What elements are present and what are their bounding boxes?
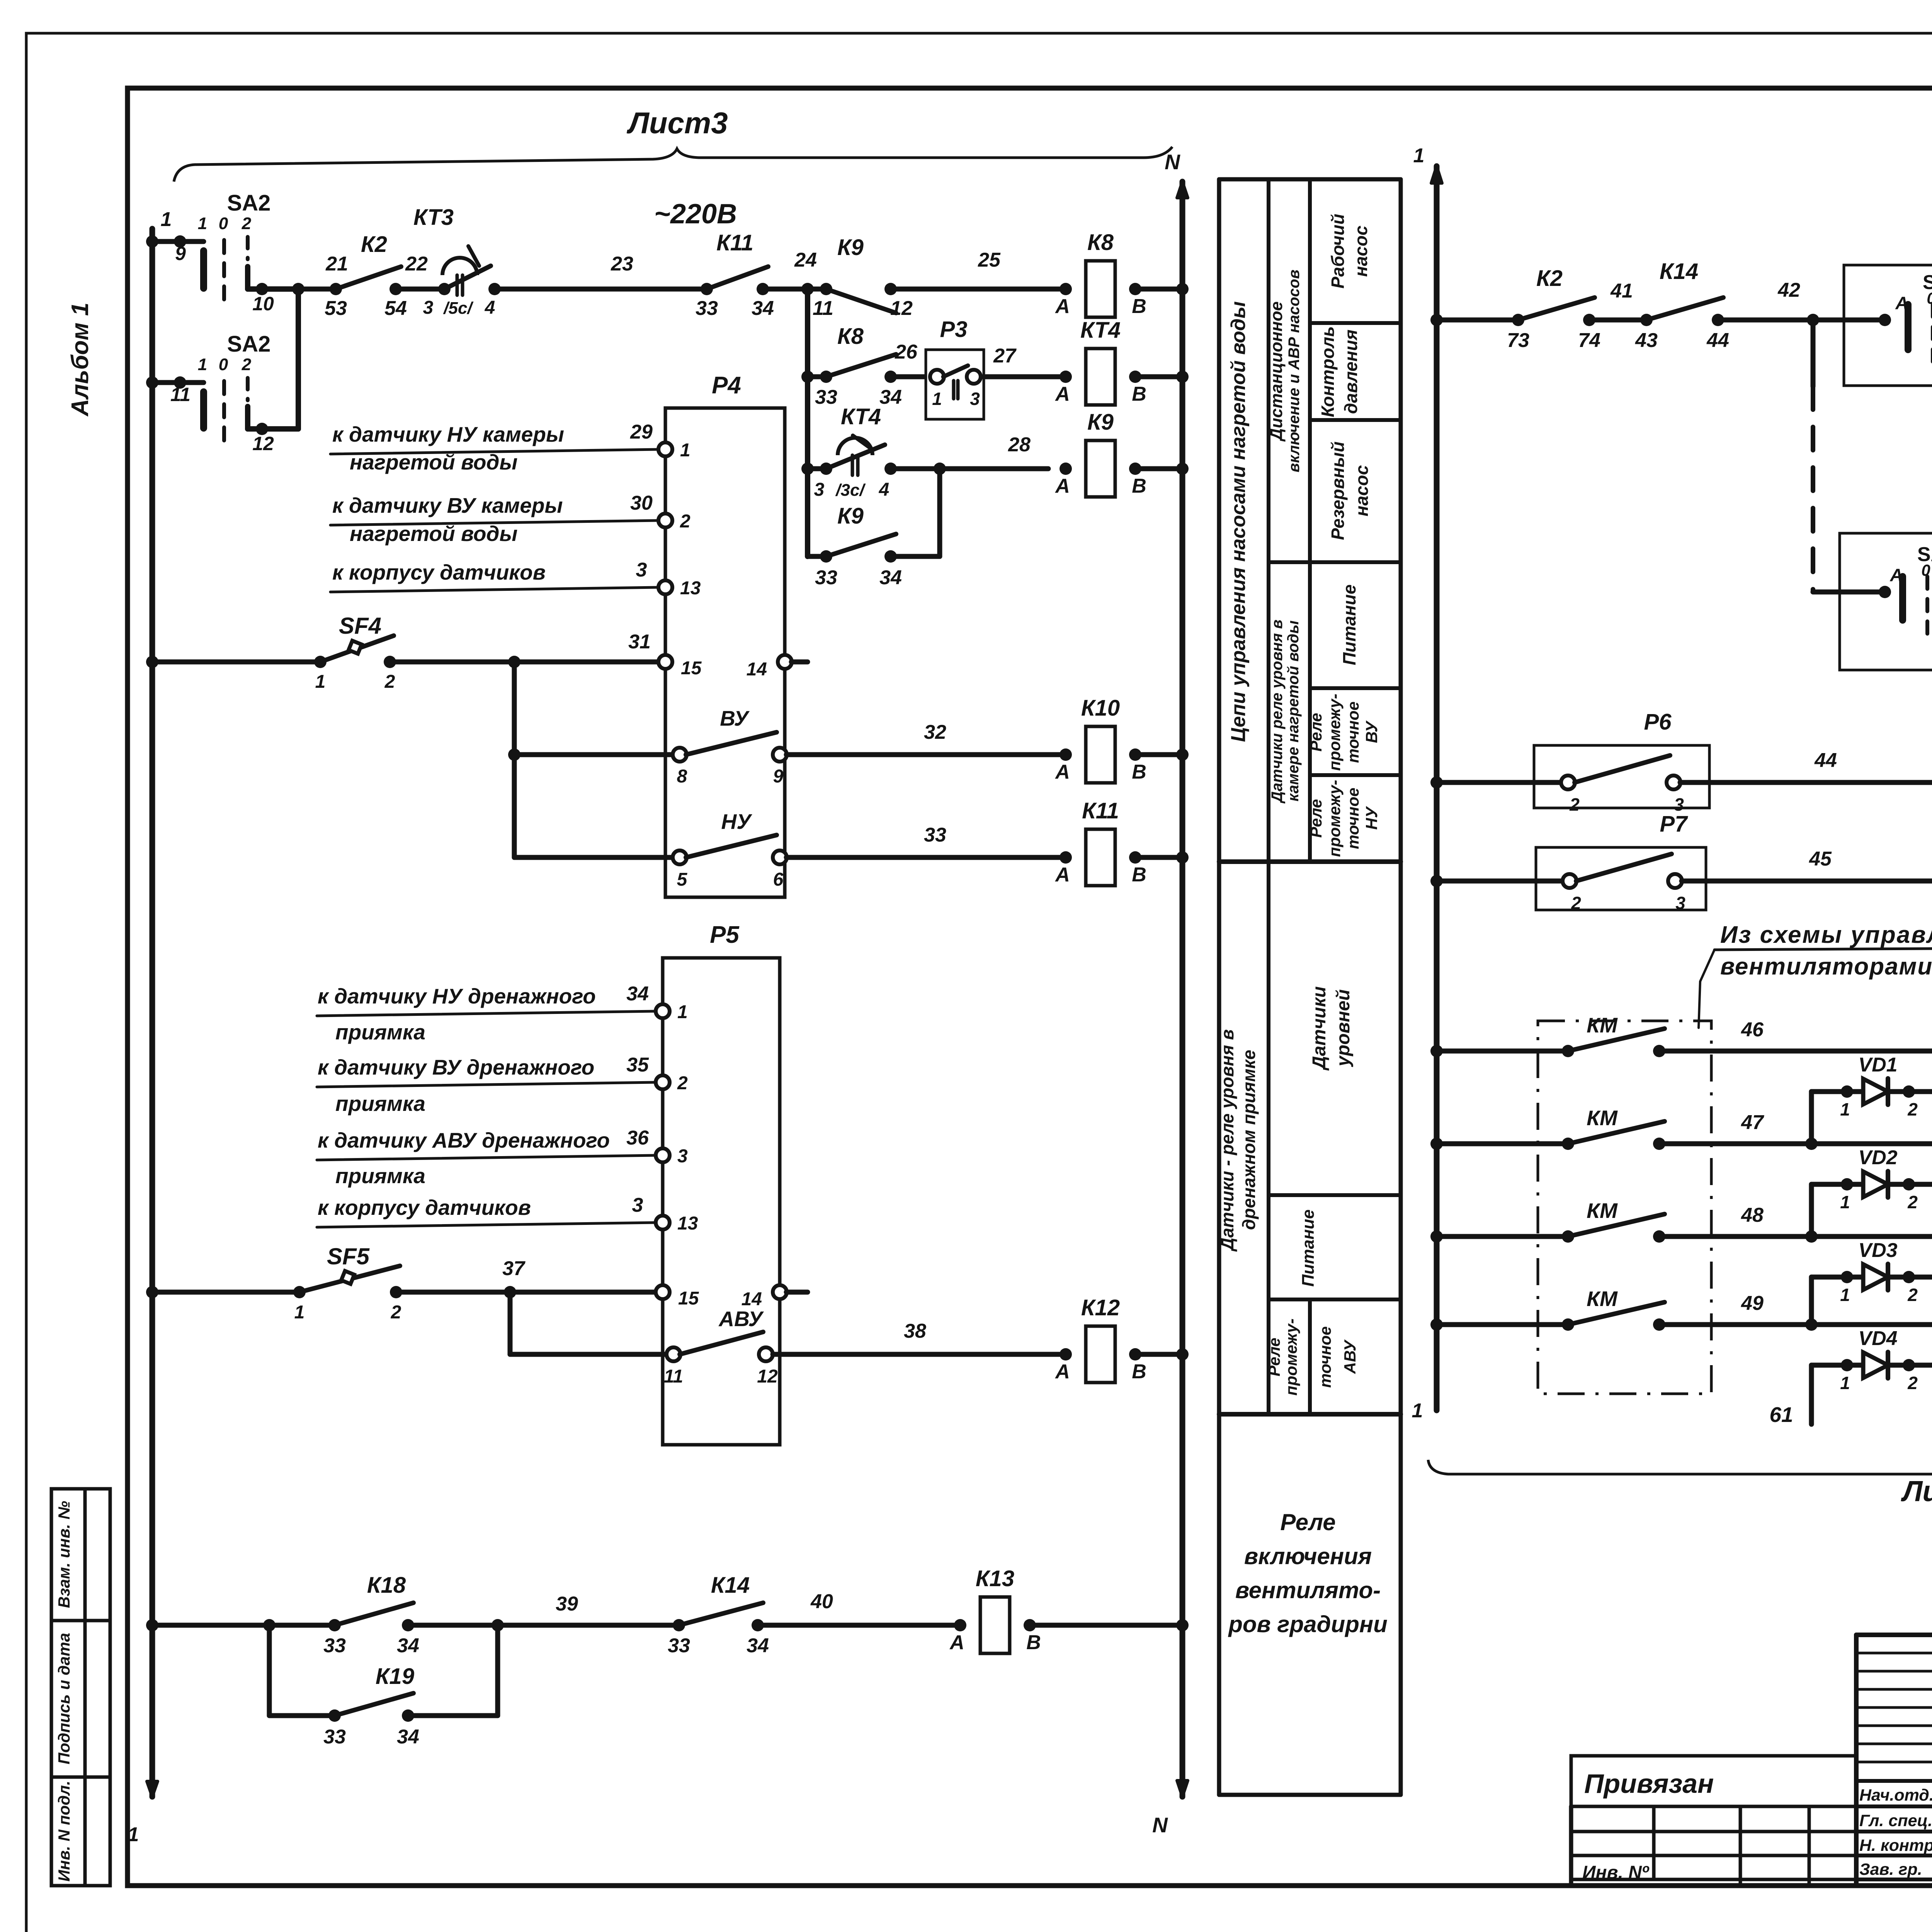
svg-text:точное: точное xyxy=(1344,787,1362,849)
svg-text:Реле: Реле xyxy=(1307,713,1325,752)
svg-text:15: 15 xyxy=(681,658,702,679)
svg-text:к датчику НУ дренажного: к датчику НУ дренажного xyxy=(318,984,596,1008)
svg-text:1: 1 xyxy=(1840,1285,1850,1305)
svg-text:22: 22 xyxy=(405,253,428,275)
svg-text:К14: К14 xyxy=(1660,259,1698,284)
svg-text:Взам. инв. №: Взам. инв. № xyxy=(55,1501,73,1608)
svg-text:2: 2 xyxy=(391,1302,401,1323)
svg-text:6: 6 xyxy=(773,869,784,890)
svg-text:Датчики: Датчики xyxy=(1309,986,1330,1071)
svg-text:15: 15 xyxy=(678,1288,699,1309)
svg-text:Контроль: Контроль xyxy=(1318,326,1338,417)
svg-text:1: 1 xyxy=(315,672,326,692)
svg-text:0: 0 xyxy=(1927,289,1932,307)
svg-text:40: 40 xyxy=(810,1590,833,1613)
svg-text:В: В xyxy=(1132,761,1146,783)
svg-text:21: 21 xyxy=(325,253,348,275)
svg-text:Р3: Р3 xyxy=(940,317,968,342)
svg-text:К9: К9 xyxy=(1087,410,1114,435)
svg-text:31: 31 xyxy=(628,631,651,653)
svg-text:3: 3 xyxy=(423,298,434,318)
svg-text:13: 13 xyxy=(680,578,701,599)
svg-text:Реле: Реле xyxy=(1307,799,1325,838)
svg-text:В: В xyxy=(1132,864,1146,886)
svg-text:2: 2 xyxy=(384,672,395,692)
svg-text:к корпусу датчиков: к корпусу датчиков xyxy=(332,560,546,584)
svg-text:12: 12 xyxy=(757,1366,778,1387)
svg-text:VD3: VD3 xyxy=(1858,1239,1897,1262)
svg-text:/3с/: /3с/ xyxy=(835,481,866,500)
svg-text:Альбом 1: Альбом 1 xyxy=(67,303,94,417)
svg-text:КМ: КМ xyxy=(1587,1287,1618,1311)
svg-text:Лист 5: Лист 5 xyxy=(1901,1475,1932,1507)
svg-text:вентилято-: вентилято- xyxy=(1235,1577,1381,1603)
svg-text:Датчики реле уровня в: Датчики реле уровня в xyxy=(1269,619,1286,803)
svg-text:SA2: SA2 xyxy=(227,332,271,357)
svg-text:К8: К8 xyxy=(837,324,864,349)
svg-text:Инв. N подл.: Инв. N подл. xyxy=(55,1781,73,1881)
svg-text:К9: К9 xyxy=(837,235,864,260)
svg-text:промежу-: промежу- xyxy=(1325,694,1344,771)
svg-text:1: 1 xyxy=(198,355,207,374)
svg-text:9: 9 xyxy=(773,766,784,787)
svg-text:К8: К8 xyxy=(1087,230,1114,255)
svg-text:33: 33 xyxy=(815,386,837,408)
svg-text:к датчику НУ камеры: к датчику НУ камеры xyxy=(332,422,564,446)
svg-text:41: 41 xyxy=(1610,280,1633,302)
svg-text:А: А xyxy=(1054,761,1070,783)
svg-text:3: 3 xyxy=(632,1194,643,1216)
svg-text:12: 12 xyxy=(890,297,913,320)
svg-text:14: 14 xyxy=(747,659,767,680)
svg-text:КТ4: КТ4 xyxy=(1080,318,1121,343)
svg-text:61: 61 xyxy=(1769,1403,1793,1427)
svg-text:2: 2 xyxy=(1907,1373,1918,1393)
svg-text:VD4: VD4 xyxy=(1858,1327,1897,1350)
svg-text:КМ: КМ xyxy=(1587,1013,1618,1037)
svg-text:37: 37 xyxy=(502,1257,526,1280)
svg-text:К2: К2 xyxy=(1536,266,1563,291)
svg-text:1: 1 xyxy=(198,214,207,233)
svg-text:В: В xyxy=(1026,1631,1041,1654)
svg-text:33: 33 xyxy=(924,824,946,846)
svg-text:32: 32 xyxy=(924,721,946,743)
svg-text:АВУ: АВУ xyxy=(1341,1339,1359,1374)
svg-text:нагретой воды: нагретой воды xyxy=(350,522,517,546)
svg-text:30: 30 xyxy=(630,492,653,514)
svg-text:точное: точное xyxy=(1344,701,1362,763)
svg-text:1: 1 xyxy=(680,440,690,461)
svg-text:К11: К11 xyxy=(716,230,753,255)
svg-text:Р5: Р5 xyxy=(710,922,740,948)
svg-text:А: А xyxy=(1054,1361,1070,1383)
svg-text:10: 10 xyxy=(252,293,274,315)
svg-text:КТ4: КТ4 xyxy=(841,404,881,429)
svg-text:3: 3 xyxy=(677,1146,688,1167)
svg-text:N: N xyxy=(1152,1813,1168,1837)
svg-text:48: 48 xyxy=(1741,1204,1764,1226)
svg-text:44: 44 xyxy=(1814,749,1837,772)
svg-text:давления: давления xyxy=(1341,330,1361,414)
svg-text:33: 33 xyxy=(696,297,718,320)
svg-text:АВУ: АВУ xyxy=(718,1307,764,1331)
svg-text:Цепи управления насосами на: Цепи управления насосами нагретой воды xyxy=(1227,301,1250,742)
svg-text:0: 0 xyxy=(1921,561,1930,579)
svg-text:точное: точное xyxy=(1316,1326,1334,1388)
svg-text:Питание: Питание xyxy=(1339,584,1359,665)
svg-text:К19: К19 xyxy=(376,1664,414,1689)
svg-text:К14: К14 xyxy=(711,1573,750,1598)
svg-text:Привязан: Привязан xyxy=(1584,1769,1714,1799)
svg-text:А: А xyxy=(1054,295,1070,318)
svg-text:1: 1 xyxy=(161,208,172,231)
svg-text:А: А xyxy=(1054,475,1070,497)
svg-text:33: 33 xyxy=(815,566,837,589)
svg-text:33: 33 xyxy=(323,1634,346,1657)
svg-text:Гл. спец.: Гл. спец. xyxy=(1859,1811,1932,1830)
svg-text:0: 0 xyxy=(219,214,228,233)
svg-text:3: 3 xyxy=(1675,893,1685,913)
svg-text:приямка: приямка xyxy=(335,1092,425,1116)
svg-text:2: 2 xyxy=(680,511,690,532)
svg-text:44: 44 xyxy=(1706,329,1729,352)
svg-text:8: 8 xyxy=(677,766,687,787)
svg-text:53: 53 xyxy=(325,297,347,320)
svg-text:~220В: ~220В xyxy=(654,199,737,230)
svg-text:1: 1 xyxy=(1840,1099,1850,1119)
svg-text:47: 47 xyxy=(1741,1111,1764,1134)
svg-text:VD2: VD2 xyxy=(1858,1146,1897,1169)
svg-text:К10: К10 xyxy=(1081,696,1120,721)
svg-text:24: 24 xyxy=(794,249,817,271)
svg-text:камере нагретой воды: камере нагретой воды xyxy=(1285,621,1302,802)
svg-text:2: 2 xyxy=(1907,1099,1918,1119)
svg-text:К11: К11 xyxy=(1082,798,1119,823)
svg-text:1: 1 xyxy=(1840,1192,1850,1212)
svg-text:1: 1 xyxy=(1412,1400,1423,1422)
svg-text:ВУ: ВУ xyxy=(1362,720,1381,743)
svg-text:Р6: Р6 xyxy=(1644,709,1672,735)
svg-text:2: 2 xyxy=(241,214,252,233)
svg-text:А: А xyxy=(1054,864,1070,886)
svg-text:34: 34 xyxy=(752,297,774,320)
svg-text:43: 43 xyxy=(1635,329,1658,352)
svg-text:33: 33 xyxy=(668,1634,690,1657)
svg-text:29: 29 xyxy=(630,421,653,443)
svg-text:к датчику ВУ дренажного: к датчику ВУ дренажного xyxy=(318,1055,594,1079)
svg-text:25: 25 xyxy=(978,249,1001,271)
svg-text:1: 1 xyxy=(1840,1373,1850,1393)
svg-text:27: 27 xyxy=(993,345,1017,367)
svg-text:промежу-: промежу- xyxy=(1325,780,1344,857)
svg-text:К18: К18 xyxy=(367,1573,406,1598)
svg-text:Лист3: Лист3 xyxy=(626,106,728,140)
svg-text:73: 73 xyxy=(1507,329,1529,352)
svg-text:К2: К2 xyxy=(361,232,387,257)
svg-text:45: 45 xyxy=(1809,848,1832,870)
svg-text:SF5: SF5 xyxy=(327,1243,370,1269)
svg-text:приямка: приямка xyxy=(335,1164,425,1188)
svg-text:Нач.отд.: Нач.отд. xyxy=(1859,1786,1932,1804)
svg-text:34: 34 xyxy=(879,386,902,408)
svg-text:12: 12 xyxy=(252,433,274,454)
svg-text:приямка: приямка xyxy=(335,1020,425,1044)
svg-text:74: 74 xyxy=(1578,329,1600,352)
svg-text:VD1: VD1 xyxy=(1858,1054,1897,1076)
svg-text:к датчику АВУ дренажного: к датчику АВУ дренажного xyxy=(318,1128,610,1152)
svg-text:33: 33 xyxy=(323,1726,346,1748)
svg-text:3: 3 xyxy=(636,559,647,581)
svg-text:4: 4 xyxy=(879,480,889,500)
svg-text:2: 2 xyxy=(1907,1192,1918,1212)
svg-text:Дистанционное: Дистанционное xyxy=(1267,301,1286,442)
svg-text:А: А xyxy=(1054,383,1070,405)
svg-text:уровней: уровней xyxy=(1333,989,1354,1067)
svg-text:1: 1 xyxy=(128,1823,139,1846)
svg-text:13: 13 xyxy=(677,1213,698,1234)
svg-text:34: 34 xyxy=(397,1634,419,1657)
svg-text:промежу-: промежу- xyxy=(1282,1318,1300,1396)
svg-text:Датчики - реле уровня в: Датчики - реле уровня в xyxy=(1217,1029,1237,1252)
svg-text:0: 0 xyxy=(219,355,228,374)
svg-text:НУ: НУ xyxy=(1362,806,1381,830)
svg-text:1: 1 xyxy=(294,1302,305,1323)
svg-text:А: А xyxy=(1889,565,1903,585)
svg-text:В: В xyxy=(1132,295,1146,318)
svg-text:3: 3 xyxy=(814,480,825,500)
svg-text:вентиляторами градирни: вентиляторами градирни xyxy=(1720,953,1932,980)
svg-text:39: 39 xyxy=(556,1593,578,1615)
svg-text:Реле: Реле xyxy=(1280,1509,1335,1535)
svg-text:В: В xyxy=(1132,1361,1146,1383)
svg-text:3: 3 xyxy=(970,389,980,409)
svg-text:26: 26 xyxy=(895,341,918,363)
svg-text:Подпись и дата: Подпись и дата xyxy=(55,1633,73,1764)
svg-text:КМ: КМ xyxy=(1587,1199,1618,1223)
svg-text:К12: К12 xyxy=(1081,1295,1120,1320)
svg-text:дренажном приямке: дренажном приямке xyxy=(1239,1050,1259,1230)
svg-text:34: 34 xyxy=(397,1726,419,1748)
svg-text:11: 11 xyxy=(813,297,833,320)
svg-text:2: 2 xyxy=(1907,1285,1918,1305)
svg-text:28: 28 xyxy=(1008,434,1031,456)
svg-text:КТ3: КТ3 xyxy=(413,205,454,230)
svg-text:1: 1 xyxy=(1413,145,1425,167)
svg-text:К13: К13 xyxy=(976,1566,1014,1591)
svg-text:Рабочий: Рабочий xyxy=(1328,214,1348,289)
svg-text:49: 49 xyxy=(1741,1292,1764,1315)
svg-text:НУ: НУ xyxy=(721,810,753,833)
svg-text:34: 34 xyxy=(879,566,902,589)
svg-text:1: 1 xyxy=(932,389,942,409)
svg-text:ров градирни: ров градирни xyxy=(1228,1611,1388,1637)
svg-text:включение и АВР насосов: включение и АВР насосов xyxy=(1286,270,1303,473)
svg-text:4: 4 xyxy=(485,298,495,318)
svg-text:Р7: Р7 xyxy=(1660,811,1689,837)
svg-text:2: 2 xyxy=(677,1073,688,1094)
svg-text:54: 54 xyxy=(384,297,407,320)
svg-text:к корпусу датчиков: к корпусу датчиков xyxy=(318,1196,531,1219)
svg-text:38: 38 xyxy=(904,1320,926,1342)
svg-text:2: 2 xyxy=(1569,794,1580,815)
svg-text:Зав. гр.: Зав. гр. xyxy=(1859,1860,1922,1879)
svg-text:Из схемы управления: Из схемы управления xyxy=(1720,922,1932,948)
svg-text:11: 11 xyxy=(170,384,190,405)
svg-text:А: А xyxy=(949,1631,964,1654)
svg-text:В: В xyxy=(1132,475,1146,497)
svg-text:23: 23 xyxy=(611,253,633,275)
svg-text:5: 5 xyxy=(677,869,688,890)
svg-text:/5с/: /5с/ xyxy=(443,299,474,318)
svg-text:35: 35 xyxy=(626,1054,649,1076)
svg-text:9: 9 xyxy=(175,243,186,264)
svg-text:1: 1 xyxy=(677,1002,688,1022)
svg-text:Р4: Р4 xyxy=(712,372,741,399)
svg-text:36: 36 xyxy=(626,1127,649,1149)
svg-text:к датчику ВУ камеры: к датчику ВУ камеры xyxy=(332,493,563,517)
svg-text:2: 2 xyxy=(1571,893,1581,913)
svg-text:46: 46 xyxy=(1741,1019,1764,1041)
svg-text:нагретой воды: нагретой воды xyxy=(350,450,517,474)
svg-text:К9: К9 xyxy=(837,503,864,529)
svg-text:насос: насос xyxy=(1351,226,1371,277)
svg-text:КМ: КМ xyxy=(1587,1106,1618,1130)
svg-text:N: N xyxy=(1165,150,1180,174)
svg-text:В: В xyxy=(1132,383,1146,405)
svg-text:насос: насос xyxy=(1352,465,1372,517)
svg-text:Реле: Реле xyxy=(1265,1338,1283,1376)
svg-text:42: 42 xyxy=(1777,279,1800,301)
svg-text:А: А xyxy=(1895,293,1908,313)
svg-text:Инв. Nº: Инв. Nº xyxy=(1582,1862,1650,1883)
svg-text:SA2: SA2 xyxy=(227,190,271,216)
svg-text:ВУ: ВУ xyxy=(720,706,750,730)
svg-text:2: 2 xyxy=(241,355,252,374)
svg-text:34: 34 xyxy=(747,1634,769,1657)
svg-text:11: 11 xyxy=(664,1366,683,1387)
svg-text:Резервный: Резервный xyxy=(1328,441,1348,540)
svg-text:включения: включения xyxy=(1244,1543,1372,1569)
svg-text:SF4: SF4 xyxy=(339,613,381,639)
svg-text:34: 34 xyxy=(626,983,649,1005)
svg-text:Питание: Питание xyxy=(1299,1209,1318,1287)
svg-text:Н. контр.: Н. контр. xyxy=(1859,1836,1932,1855)
